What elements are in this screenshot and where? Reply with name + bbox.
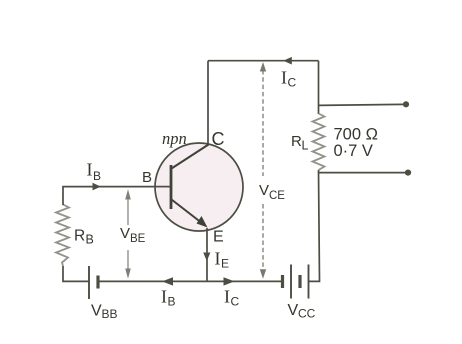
transistor emitter arrowhead xyxy=(197,216,208,228)
resistor R_L zigzag xyxy=(313,114,325,171)
svg-text:I: I xyxy=(87,160,93,180)
transistor emitter diagonal xyxy=(172,200,203,224)
svg-text:R: R xyxy=(74,228,85,245)
battery VBB plate long xyxy=(88,266,90,299)
arrow I_E on emitter wire (pointing down) xyxy=(203,253,210,262)
svg-text:B: B xyxy=(142,169,152,186)
svg-text:V: V xyxy=(120,225,130,242)
terminal dot upper xyxy=(403,101,409,107)
transistor base bar xyxy=(170,165,173,209)
wire: emitter vertical xyxy=(206,228,208,281)
arrow I_C on bottom wire (pointing right) xyxy=(224,277,235,285)
arrow I_B on bottom wire (pointing left) xyxy=(162,277,173,285)
svg-text:CC: CC xyxy=(298,307,316,321)
transistor Q1 body circle xyxy=(155,143,243,231)
transistor collector diagonal xyxy=(172,145,209,169)
svg-text:B: B xyxy=(168,295,176,309)
battery VCC plate long (right) xyxy=(308,265,310,299)
battery VCC plate short (left) xyxy=(281,275,284,288)
measure line V_BE (double arrow) xyxy=(127,193,129,225)
svg-text:I: I xyxy=(281,68,287,88)
svg-text:I: I xyxy=(224,287,230,307)
svg-text:C: C xyxy=(288,76,297,90)
svg-text:0·7 V: 0·7 V xyxy=(334,142,373,160)
dashed measure V_CE (double arrow, gap for label) xyxy=(262,70,264,176)
svg-text:V: V xyxy=(288,302,299,319)
svg-text:npn: npn xyxy=(162,129,187,148)
svg-text:I: I xyxy=(161,287,167,307)
arrow Ic on top wire (pointing left) xyxy=(283,57,292,65)
wire: left branch bottom segment xyxy=(63,266,89,281)
svg-text:BE: BE xyxy=(130,233,146,245)
svg-text:L: L xyxy=(302,139,309,153)
svg-text:C: C xyxy=(212,129,225,149)
svg-text:E: E xyxy=(221,257,229,271)
terminal dot lower xyxy=(405,170,411,176)
battery VCC plate short (inner right) xyxy=(298,275,301,288)
svg-text:R: R xyxy=(291,133,302,150)
battery VCC plate long (inner left) xyxy=(290,265,292,299)
wire: right branch vertical (lower segment) xyxy=(309,170,320,281)
wire: upper terminal stub xyxy=(319,104,404,105)
svg-text:700 Ω: 700 Ω xyxy=(334,126,378,144)
wire: top collector-to-VCC horizontal xyxy=(208,60,319,62)
wire: right branch vertical (top segment) xyxy=(318,61,320,114)
svg-text:E: E xyxy=(213,229,224,246)
wire: bottom main (VBB side to VCC) xyxy=(99,280,283,282)
svg-text:B: B xyxy=(93,169,101,183)
wire: collector vertical drop xyxy=(207,61,209,146)
arrow I_B on base wire (pointing right) xyxy=(93,183,101,191)
svg-text:V: V xyxy=(259,182,269,199)
svg-text:V: V xyxy=(91,303,102,320)
wire: left branch top segment xyxy=(63,187,171,205)
svg-text:BB: BB xyxy=(102,307,118,321)
wire: lower terminal stub xyxy=(319,172,405,174)
svg-text:C: C xyxy=(231,295,240,309)
wire: base lead inside circle xyxy=(155,186,171,188)
resistor R_B zigzag xyxy=(56,205,69,267)
svg-text:CE: CE xyxy=(269,190,285,202)
svg-text:B: B xyxy=(86,233,94,247)
svg-text:I: I xyxy=(215,249,221,269)
battery VBB plate short xyxy=(96,276,99,289)
